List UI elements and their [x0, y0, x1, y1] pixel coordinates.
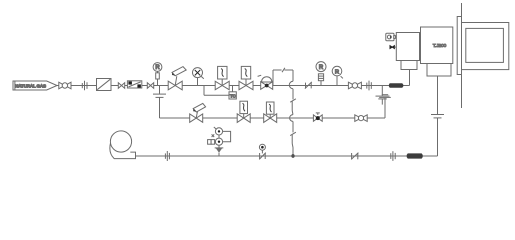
svg-text:T.J200: T.J200 [433, 43, 447, 49]
svg-text:R: R [155, 65, 160, 71]
svg-text:NATURAL GAS: NATURAL GAS [15, 83, 46, 88]
svg-text:R: R [319, 65, 324, 71]
